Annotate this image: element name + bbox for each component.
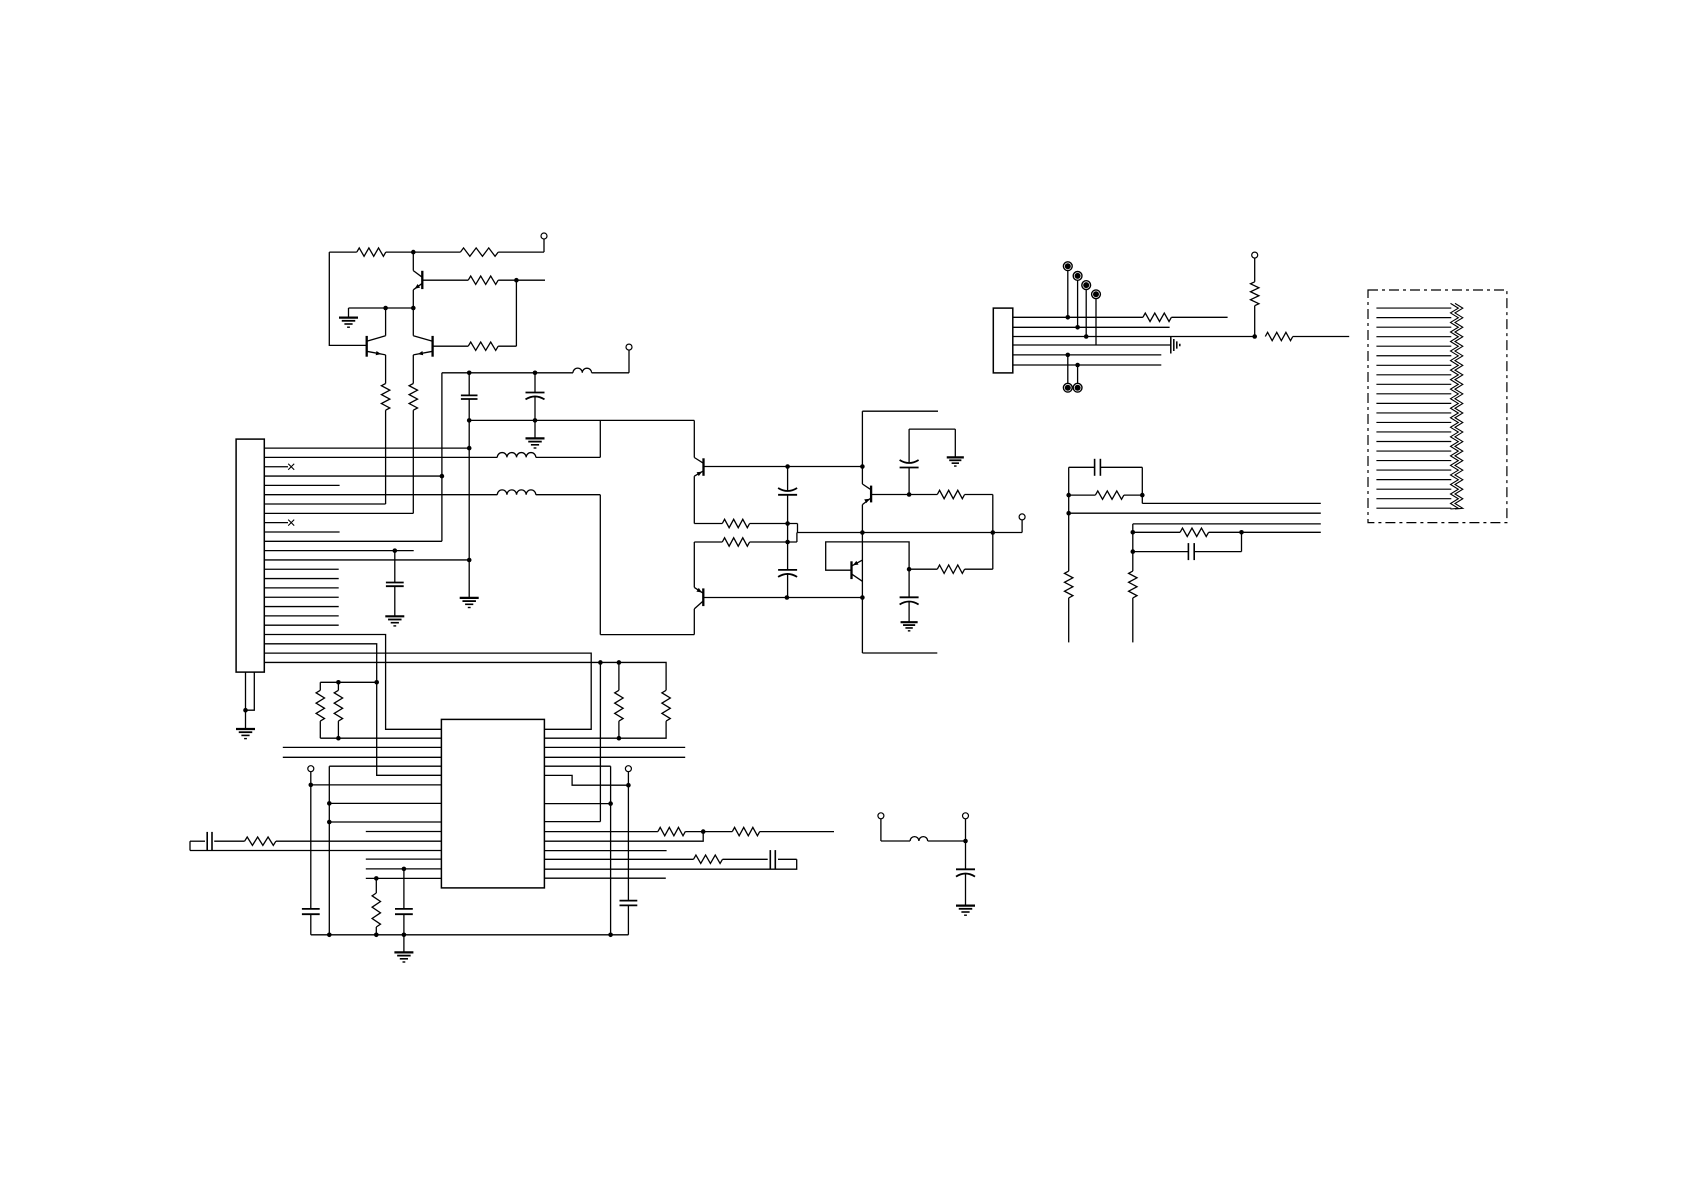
node C7 top junction (393, 548, 398, 553)
wire Q5 emitter rise (693, 542, 695, 587)
node line2 junction (1066, 511, 1071, 516)
wire branch x469.2 (468, 420, 470, 597)
wire U1 pin row 878 right (544, 877, 665, 879)
transistor Q2 (366, 336, 368, 357)
wire U1 pin row 822 left (329, 821, 441, 823)
wire Q1 base (422, 279, 468, 281)
resistor R20 (245, 837, 276, 845)
node via2 junction (1075, 325, 1080, 330)
resistor R14 (319, 682, 321, 690)
wire R26 row / head line4 (1133, 531, 1180, 533)
terminal T1 (541, 233, 547, 239)
resistor R1 (357, 248, 386, 256)
wire J2 pin2 row (1013, 326, 1170, 328)
wire U1 pin row 831 right (544, 831, 658, 833)
ground GND8 (245, 710, 247, 728)
wire R7 row (694, 523, 722, 525)
wire Q5 base (703, 597, 862, 599)
connector J1 (236, 439, 264, 672)
wire U1 pin row 859 left (366, 858, 442, 860)
node x610 row junction (608, 801, 613, 806)
node via5 junction (1066, 353, 1071, 358)
node R16 bottom junction (374, 933, 379, 938)
wire head line1 (1142, 502, 1321, 504)
wire J1 pin3 (264, 475, 442, 477)
capacitor C11 (769, 850, 771, 868)
node rail-output junction (860, 530, 865, 535)
wire row y420.4 (469, 419, 694, 421)
capacitor C9 (403, 869, 405, 909)
resistor R12 (615, 690, 623, 721)
node T7 junction (626, 783, 631, 788)
wire R6 to pin7 (412, 410, 414, 513)
node R24 left (1066, 493, 1071, 498)
wire top rail (329, 251, 357, 253)
wire U1 pin row 869 left (366, 868, 442, 870)
node Q4 base to rail (860, 464, 865, 469)
wire R23 to pin3 (1254, 306, 1256, 337)
capacitor C10 (620, 900, 638, 902)
wire J1 pin11 (264, 550, 413, 552)
wire C13 branch (1069, 466, 1095, 468)
node x610 bottom (608, 933, 613, 938)
node LC junction (963, 839, 968, 844)
node y420 right (533, 418, 538, 423)
wire branch x441.9 (441, 373, 443, 542)
node R17R18 junction (701, 829, 706, 834)
node R15 top junction (336, 680, 341, 685)
resistor R19 (694, 855, 723, 863)
wire J1 pin rows (short group) (264, 484, 339, 486)
wire bus bottom edge (600, 634, 694, 636)
resistor R15 (337, 682, 339, 690)
ground GND4 (385, 615, 404, 617)
resistor R6 (409, 384, 417, 411)
ground GND1 (348, 308, 350, 317)
resistor R26 (1180, 528, 1209, 536)
capacitor C15 (965, 841, 967, 869)
resistor R17 (658, 827, 685, 835)
wire left feedback edge (329, 252, 366, 345)
resistor R21 (1143, 313, 1172, 321)
wire U1 pin row 831 left (366, 831, 442, 833)
wire bus line 1 (283, 746, 685, 748)
wire head line3 (1133, 523, 1321, 525)
wire U1 pin row 878 left (366, 877, 442, 879)
terminal T4 (308, 766, 314, 772)
wire J1 pin2 (nc) (264, 466, 288, 468)
capacitor C7 (394, 551, 396, 583)
wire U1 pin row 785 left (311, 784, 442, 786)
wire C8 bottom (310, 914, 312, 935)
wire J1 pin0 (264, 447, 469, 449)
terminal T7 (625, 766, 631, 772)
resistor R7 (722, 519, 749, 527)
resistor R24 (1095, 491, 1124, 499)
node C6 top junction (907, 567, 912, 572)
inductor L4 (910, 837, 928, 841)
wire left U-link (189, 841, 191, 850)
wire C14 branch (1133, 551, 1189, 553)
wire bus line 2 (283, 756, 685, 758)
wire U1 pin row 766 right (544, 765, 610, 767)
node pin0 junction (467, 446, 472, 451)
capacitor C1 (468, 373, 470, 396)
transistor Q5 (702, 588, 704, 606)
resistor R13 (662, 690, 670, 721)
wire J1 pin21 to U1 (264, 644, 441, 775)
wire bus right-top edge (693, 420, 695, 457)
wire bottom return row (190, 850, 441, 852)
wire Q5 collector drop (693, 609, 695, 635)
ground GND6 (901, 621, 918, 623)
wire J2 pin1 row (1013, 316, 1143, 318)
resistor R16 (375, 878, 377, 893)
connector J2 (993, 308, 1013, 373)
no-connect cross pin2 (288, 464, 294, 470)
wire right drop x610.6 (610, 766, 612, 935)
wire U1 pin row 841 right jog (544, 832, 703, 842)
wire output row (798, 532, 1023, 534)
terminal T2 (626, 344, 632, 350)
wire J2 pin3 row (1013, 336, 1255, 338)
wire mid stub x1132.8 (1132, 532, 1134, 571)
via VIA3 (1085, 290, 1087, 337)
wire U1 pin row 775 right jog (544, 775, 628, 785)
wire J1 pin20 to U1 (264, 635, 441, 730)
wire R10 row (965, 568, 993, 570)
IC U1 (441, 719, 544, 888)
wire U1 pin row 869 right loop (544, 859, 796, 869)
wire J1 pin8 (nc) (264, 522, 288, 524)
node via1 junction (1066, 315, 1071, 320)
node C9 bottom junction (402, 933, 407, 938)
wire bus left-top edge (599, 420, 601, 457)
wire R9-R10 right edge (992, 495, 994, 570)
node rail-Q2 junction (383, 306, 388, 311)
wire emitter rail y308 (349, 307, 414, 309)
wire head line2 (1067, 512, 1321, 514)
terminal T3 (1252, 252, 1258, 258)
node R8 junction (785, 540, 790, 545)
via VIA5 (1067, 355, 1069, 383)
via VIA2 (1077, 280, 1079, 327)
wire pin1 row with L2 (264, 456, 497, 458)
wire right rail x862.4 (861, 411, 863, 484)
wire supply row y372.8 (442, 372, 573, 374)
wire Q4 emitter drop (693, 476, 695, 523)
wire Q7 base loop (826, 542, 909, 570)
wire J2 pin6 row (1013, 364, 1162, 366)
ground GND3 (460, 597, 479, 599)
resistor R25 (1065, 571, 1073, 598)
node R12 top junction (617, 660, 622, 665)
node pin12 junction (467, 558, 472, 563)
wire U1 pin row 850 right (544, 850, 666, 852)
thermal head resistor chain (1451, 303, 1459, 509)
node x329 row2 (327, 820, 332, 825)
resistor R2 (460, 248, 498, 256)
wire R14R15 bottom row to U1 (320, 737, 441, 739)
node R16 top junction (374, 876, 379, 881)
node R26 left (1131, 530, 1136, 535)
resistor R23 (1251, 282, 1259, 306)
wire R4 row (433, 345, 469, 347)
inductor L3 (497, 490, 536, 495)
resistor R9 (937, 490, 964, 498)
node R26 right (1239, 530, 1244, 535)
node C9 top junction (402, 867, 407, 872)
wire J2 pin4 row (1013, 344, 1171, 346)
wire C12/R20 top row (190, 840, 205, 842)
node C4 bottom junction (785, 595, 790, 600)
capacitor C3 (787, 467, 789, 491)
inductor L1 (573, 368, 592, 373)
node R7 junction (785, 521, 790, 526)
wire J1 bottom pins (245, 672, 247, 710)
wire left stub x1068.7 (1068, 467, 1070, 571)
ground GND9 (403, 935, 405, 952)
wire Q3 collector/emitter stub (412, 308, 414, 336)
wire C3-C4 mid link (787, 524, 789, 543)
transistor Q3 (431, 336, 433, 357)
resistor R27 (1129, 571, 1137, 598)
wire J1 pin7 (264, 512, 413, 514)
terminal T6 (963, 813, 969, 819)
wire J1 pin12 (264, 559, 469, 561)
ground GND5 (947, 456, 964, 458)
resistor R4 (468, 342, 498, 350)
wire T4 drop x310.8 (310, 785, 312, 909)
node R15 bottom junction (336, 736, 341, 741)
resistor R3 (468, 276, 498, 284)
wire R14R15 top link (320, 681, 376, 683)
terminal T8 (1019, 514, 1025, 520)
node C3 top junction (785, 464, 790, 469)
wire LC row (881, 840, 910, 842)
wire U1 pin row 766 left (329, 765, 441, 767)
wire top stub y411.2 (862, 410, 938, 412)
ground GND2 (534, 420, 536, 438)
wire C10 bottom (627, 905, 629, 934)
capacitor C2 (534, 373, 536, 393)
wire Q6 base (871, 494, 937, 496)
node R24 right (1140, 493, 1145, 498)
wire U1 pin row 803 right (544, 803, 610, 805)
wire Q4 base (704, 466, 863, 468)
resistor R18 (732, 827, 759, 835)
capacitor C13 (1094, 459, 1096, 476)
wire J1 pin23 row (264, 662, 666, 690)
thermal head element lines (1376, 307, 1451, 309)
capacitor C8 (302, 908, 320, 910)
node via6 junction (1075, 363, 1080, 368)
wire U1 pin row 803 left (329, 802, 441, 804)
node x329 row1 (327, 801, 332, 806)
transistor Q1 (421, 271, 423, 289)
thermal head dashed outline (1368, 290, 1507, 523)
wire ground rail bottom (311, 934, 629, 936)
transistor Q6 (870, 486, 872, 503)
wire U1 pin row 859 right (544, 858, 693, 860)
node C2 top (533, 371, 538, 376)
resistor R8 (722, 538, 749, 546)
wire T7 drop x628.4 (627, 785, 629, 900)
node pin3 junction (440, 474, 445, 479)
node R14R15 top junction (374, 680, 379, 685)
wire R13 bottom to U1 (544, 721, 666, 738)
wire R12 stubs (618, 662, 620, 690)
node Q5 base to rail (860, 595, 865, 600)
capacitor C14 (1187, 543, 1189, 560)
no-connect cross pin8 (288, 520, 294, 526)
wire R24 branch (1069, 494, 1096, 496)
wire Q2 collector/emitter stub (385, 308, 387, 336)
transistor Q7 (850, 561, 852, 579)
wire bus left-bottom edge (599, 495, 601, 635)
wire x600 vertical to U1 (599, 662, 601, 821)
node y420 left (467, 418, 472, 423)
wire J1 pin10 (264, 540, 442, 542)
transistor Q4 (702, 458, 704, 476)
wire J1 pin6 (264, 503, 385, 505)
node R12 bottom junction (617, 736, 622, 741)
via VIA6 (1077, 365, 1079, 383)
node via3 junction (1084, 334, 1089, 339)
wire R5 to pin6 (385, 410, 387, 504)
wire pin5 row with L3 (264, 494, 497, 496)
node x600 junction (598, 660, 603, 665)
node C14 left junction (1131, 549, 1136, 554)
node top-rail junction (411, 250, 416, 255)
terminal T5 (878, 813, 884, 819)
ground GND10 (956, 904, 975, 906)
wire right stub top x1142.3 (1141, 467, 1143, 503)
wire left drop x329.3 (328, 766, 330, 935)
resistor R22 (1265, 332, 1293, 340)
resistor R5 (381, 384, 389, 411)
wire J2 pin5 row (1013, 354, 1162, 356)
via VIA1 (1067, 271, 1069, 318)
node x329 bottom (327, 933, 332, 938)
capacitor C5 (908, 468, 910, 495)
capacitor C12 (206, 832, 208, 851)
node rail-Q1 junction (411, 306, 416, 311)
node R9R10 output junction (991, 530, 996, 535)
via VIA4 (1095, 299, 1097, 345)
wire R3-R4 right link (515, 280, 517, 346)
node C5 bottom junction (907, 492, 912, 497)
wire J1 pin22 to U1 (264, 653, 591, 729)
node R3 right junction (514, 278, 519, 283)
resistor R10 (937, 565, 964, 573)
inductor L2 (497, 453, 536, 458)
capacitor C6 (908, 569, 910, 597)
wire R8 row (694, 541, 722, 543)
node R23 bottom junction (1252, 334, 1257, 339)
node T4 junction (309, 783, 314, 788)
capacitor C4 (787, 542, 789, 570)
node C1 top (467, 371, 472, 376)
node J1 ground junction (243, 708, 248, 713)
ground GND7 sideways (1170, 337, 1172, 354)
